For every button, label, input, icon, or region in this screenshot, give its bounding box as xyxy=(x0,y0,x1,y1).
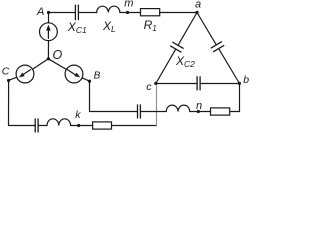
wire resistor to b-leg xyxy=(230,111,240,113)
arrow EB shaft xyxy=(67,70,75,76)
node c xyxy=(154,82,157,85)
arrowhead EA xyxy=(46,25,51,31)
wire O to source EC xyxy=(33,59,49,69)
inductor B-branch xyxy=(166,105,189,111)
wire EC to C xyxy=(9,77,17,80)
node O xyxy=(47,57,50,60)
capacitor XC1 xyxy=(75,5,78,20)
wire cap to inductor xyxy=(38,125,47,127)
source EA circle xyxy=(40,23,58,41)
node n xyxy=(197,110,200,113)
svg-text:n: n xyxy=(196,100,202,112)
triangle left side a-c lower xyxy=(156,49,176,83)
capacitor bottom-left xyxy=(35,119,38,132)
triangle bottom capacitor to b xyxy=(200,83,239,85)
node B xyxy=(88,80,91,83)
triangle bottom c to capacitor xyxy=(156,83,197,85)
wire R1 to a xyxy=(160,12,197,14)
node a xyxy=(195,11,198,14)
node b xyxy=(238,82,241,85)
capacitor right plates xyxy=(211,42,224,52)
wire A down to source EA xyxy=(48,13,50,23)
arrowheads and node dots xyxy=(7,11,241,127)
resistor right xyxy=(211,108,230,115)
triangle right side a-b upper xyxy=(197,13,216,45)
wire capacitor to inductor xyxy=(140,111,166,113)
capacitor triangle bottom xyxy=(197,77,200,90)
svg-text:b: b xyxy=(243,74,249,86)
wire up to b xyxy=(239,84,241,112)
node C xyxy=(7,79,10,82)
svg-text:C: C xyxy=(2,66,10,78)
svg-text:XC2: XC2 xyxy=(175,54,195,69)
triangle left side a-c upper xyxy=(178,13,197,46)
triangle right side a-b lower xyxy=(219,49,240,84)
svg-text:O: O xyxy=(53,48,63,62)
wire EA to O xyxy=(47,41,49,59)
node m xyxy=(126,11,129,14)
svg-text:k: k xyxy=(75,109,81,121)
wire resistor to c-leg corner xyxy=(112,125,157,127)
arrow EC shaft xyxy=(22,70,30,76)
arrowhead EB xyxy=(74,73,80,78)
svg-text:a: a xyxy=(195,0,201,11)
svg-text:c: c xyxy=(146,81,152,93)
svg-text:R1: R1 xyxy=(144,18,157,33)
wire up to c (light) xyxy=(156,84,158,126)
source EB circle xyxy=(65,65,83,83)
inductor XL xyxy=(97,6,120,12)
wire O to source EB xyxy=(48,59,66,70)
wire C down and along bottom xyxy=(9,81,36,126)
arrowhead EC xyxy=(19,73,25,78)
wire XL to R1 xyxy=(120,12,141,14)
wire inductor to resistor via k xyxy=(71,125,93,127)
node k xyxy=(77,124,80,127)
resistor bottom-left xyxy=(93,122,112,129)
capacitor XC2 plates xyxy=(171,42,184,52)
svg-text:B: B xyxy=(94,71,101,82)
resistor R1 xyxy=(141,9,160,16)
svg-text:A: A xyxy=(36,6,44,18)
wire B down xyxy=(89,81,91,111)
arrow EA shaft xyxy=(47,29,49,39)
inductor bottom-left xyxy=(47,119,71,126)
wire B-branch to capacitor xyxy=(90,111,138,113)
svg-text:XL: XL xyxy=(102,19,116,34)
wire inductor to resistor via n xyxy=(190,111,211,113)
svg-text:XC1: XC1 xyxy=(67,20,87,35)
wire EB to B xyxy=(82,78,89,81)
wire XC1 to XL xyxy=(78,12,96,14)
source EC circle xyxy=(16,65,34,83)
capacitor B-branch xyxy=(138,105,141,118)
svg-text:m: m xyxy=(124,0,133,10)
node A xyxy=(47,11,50,14)
wire A to XC1 xyxy=(49,12,76,14)
